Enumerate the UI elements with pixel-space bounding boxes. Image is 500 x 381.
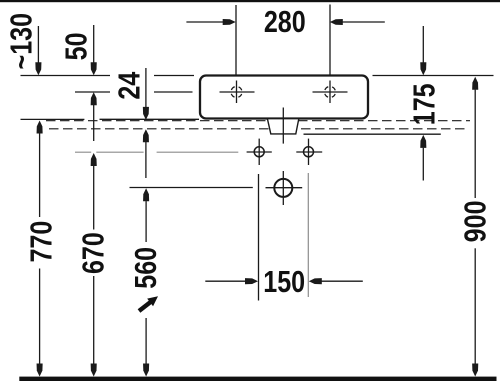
svg-text:770: 770 (23, 221, 58, 263)
svg-text:24: 24 (111, 71, 146, 99)
svg-text:670: 670 (75, 232, 110, 274)
svg-text:150: 150 (263, 263, 305, 298)
svg-text:280: 280 (264, 3, 306, 38)
svg-text:50: 50 (58, 32, 93, 60)
svg-text:175: 175 (406, 83, 441, 125)
svg-text:~130: ~130 (3, 13, 38, 70)
svg-text:900: 900 (457, 200, 492, 242)
svg-text:560: 560 (127, 247, 162, 289)
